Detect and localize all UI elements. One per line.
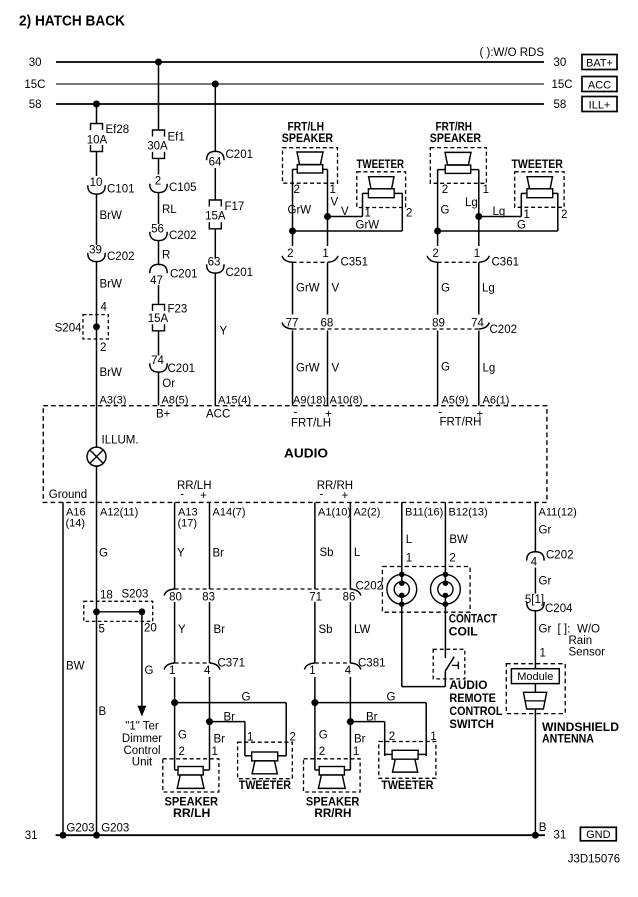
svg-text:G: G <box>178 730 187 742</box>
pin 1 of RR/LH speaker <box>212 746 218 758</box>
svg-text:A6(1): A6(1) <box>483 395 510 407</box>
svg-text:A9(18): A9(18) <box>293 395 326 407</box>
svg-text:BAT+: BAT+ <box>586 58 613 70</box>
svg-text:Rain: Rain <box>569 635 593 647</box>
connector C204 pin 5[1] <box>525 594 573 615</box>
pin A8(5) <box>162 395 189 407</box>
svg-text:2: 2 <box>406 208 412 220</box>
label TWEETER FRT/RH <box>512 159 564 171</box>
pin A2(2) <box>354 507 381 519</box>
svg-text:C381: C381 <box>358 658 386 670</box>
svg-text:C201: C201 <box>168 363 196 375</box>
wire RL C105 to C202 <box>159 193 178 225</box>
svg-text:G: G <box>99 548 108 560</box>
svg-text:Or: Or <box>162 378 175 390</box>
wire BW B12 to contact coil <box>445 502 468 583</box>
wire Ef28 to C101 <box>96 152 98 177</box>
wire G C361 to C202 <box>438 263 450 315</box>
svg-text:A1(10): A1(10) <box>318 507 351 519</box>
pin 2 of FRT/RH speaker <box>442 184 448 196</box>
svg-text:Ground: Ground <box>49 489 87 501</box>
svg-text:W/O: W/O <box>577 624 600 636</box>
splice S203 <box>84 589 157 636</box>
svg-text:B11(16): B11(16) <box>405 507 443 519</box>
svg-text:Module: Module <box>517 671 553 683</box>
svg-text:1: 1 <box>322 248 328 260</box>
svg-text:( ):W/O RDS: ( ):W/O RDS <box>480 47 545 59</box>
label TWEETER FRT/LH <box>357 159 405 171</box>
wire 15C to C201 <box>214 84 216 151</box>
svg-text:1: 1 <box>309 665 315 677</box>
wire contact coil right to switch <box>444 595 446 658</box>
svg-text:71: 71 <box>309 592 322 604</box>
contact coil box <box>382 567 470 613</box>
label: ( ):W/O RDS note <box>480 47 545 59</box>
svg-text:G: G <box>319 730 328 742</box>
wire Ef1 to C105 <box>158 158 160 174</box>
svg-text:ACC: ACC <box>206 409 230 421</box>
svg-text:4: 4 <box>101 302 108 314</box>
svg-text:FRT/LH: FRT/LH <box>291 418 331 430</box>
BAT+ box <box>582 55 617 70</box>
FRT/RH tweeter box <box>515 172 564 208</box>
svg-text:C105: C105 <box>169 182 197 194</box>
svg-text:47: 47 <box>150 275 163 287</box>
svg-text:RL: RL <box>162 204 177 216</box>
svg-text:CONTACT: CONTACT <box>449 614 497 626</box>
svg-text:2) HATCH BACK: 2) HATCH BACK <box>19 14 125 30</box>
FRT/RH tweeter stubs <box>521 192 558 194</box>
label Ground <box>49 489 87 501</box>
wire Br to RR/RH tweeter pin 2 <box>350 712 384 757</box>
junction G to RR/RH tweeter <box>311 699 318 706</box>
wire GrW C202 to A9 <box>293 331 320 406</box>
pin A11(12) <box>539 507 577 519</box>
wire Y C201 to A15 <box>215 273 227 406</box>
svg-text:G: G <box>441 205 450 217</box>
wire contact coil left to switch return <box>402 595 446 686</box>
wire Sb C202 to C381 <box>315 602 333 663</box>
svg-text:F17: F17 <box>225 201 245 213</box>
fuse Ef28 10A <box>87 124 129 152</box>
wire G speaker pin2 down <box>438 170 450 246</box>
pin A14(7) <box>213 507 246 519</box>
svg-text:A5(9): A5(9) <box>442 395 469 407</box>
svg-text:TWEETER: TWEETER <box>381 780 434 792</box>
svg-text:2: 2 <box>449 553 455 565</box>
fuse F23 15A <box>148 304 188 331</box>
svg-text:GrW: GrW <box>296 363 320 375</box>
svg-text:WINDSHIELD: WINDSHIELD <box>542 722 619 734</box>
svg-text:BrW: BrW <box>100 210 123 222</box>
label SPEAKER RR/RH <box>306 797 360 821</box>
wire V speaker pin1 down <box>328 169 339 246</box>
svg-text:1: 1 <box>169 665 175 677</box>
svg-text:1: 1 <box>483 184 489 196</box>
pin 2 of RR/RH tweeter <box>389 731 395 743</box>
svg-text:C202: C202 <box>107 251 135 263</box>
pin A6(1) <box>483 395 510 407</box>
svg-text:C361: C361 <box>492 257 520 269</box>
pin 1 of RR/RH tweeter <box>430 731 436 743</box>
svg-text:Y: Y <box>220 326 228 338</box>
wire F23 to C201 <box>158 331 160 356</box>
wire switch to return <box>444 671 446 686</box>
svg-text:2: 2 <box>561 209 567 221</box>
wire C201 to F23 <box>158 285 160 304</box>
contact coil left <box>387 572 417 607</box>
RR/RH speaker box <box>304 759 361 792</box>
pin A16(14) <box>66 507 86 530</box>
label J3D15076 <box>568 854 620 866</box>
svg-text:GrW: GrW <box>356 220 380 232</box>
pin 2 of RR/LH speaker <box>179 746 185 758</box>
svg-text:2: 2 <box>319 746 325 758</box>
pin 2 of FRT/RH tweeter <box>561 209 567 221</box>
antenna module <box>511 669 559 684</box>
svg-text:CONTROL: CONTROL <box>449 706 502 718</box>
svg-text:V: V <box>331 197 339 209</box>
svg-text:B: B <box>99 706 107 718</box>
connector C202 pin 39 <box>88 245 135 264</box>
svg-text:Br: Br <box>213 548 225 560</box>
pin A13(17) <box>178 507 198 530</box>
svg-text:30: 30 <box>29 57 42 69</box>
svg-text:AUDIO: AUDIO <box>284 447 328 461</box>
svg-text:GrW: GrW <box>296 283 320 295</box>
svg-text:Lg: Lg <box>482 283 495 295</box>
svg-text:(14): (14) <box>66 518 86 530</box>
wire GrW speaker pin2 down <box>288 169 312 246</box>
svg-text:89: 89 <box>432 318 445 330</box>
svg-text:V: V <box>332 283 340 295</box>
svg-text:A2(2): A2(2) <box>354 507 381 519</box>
svg-text:A15(4): A15(4) <box>218 395 251 407</box>
wire G to RR/LH tweeter pin 2 <box>175 692 287 757</box>
wire Y C202 to C371 <box>174 602 176 663</box>
junction antenna ground <box>532 832 539 839</box>
svg-text:GrW: GrW <box>288 205 312 217</box>
svg-text:C202: C202 <box>546 550 574 562</box>
wire Y A13 upper <box>175 502 185 589</box>
wire BrW C202 to S204 and A3 <box>97 262 123 406</box>
svg-text:1: 1 <box>524 209 530 221</box>
svg-text:1: 1 <box>474 248 480 260</box>
svg-text:FRT/RH: FRT/RH <box>436 122 473 134</box>
FRT/LH speaker box <box>283 148 338 184</box>
svg-text:BW: BW <box>66 661 85 673</box>
fuse F17 15A <box>205 200 244 229</box>
svg-text:31: 31 <box>25 830 38 842</box>
svg-text:31: 31 <box>554 830 567 842</box>
label AUDIO REMOTE CONTROL SWITCH <box>449 680 502 731</box>
svg-text:G203: G203 <box>101 823 129 835</box>
pin 1 of RR/LH tweeter <box>247 732 253 744</box>
svg-text:Ef1: Ef1 <box>168 132 185 144</box>
pin 2 of FRT/LH tweeter <box>406 208 412 220</box>
svg-text:Ef28: Ef28 <box>106 124 130 136</box>
svg-text:SWITCH: SWITCH <box>449 719 494 731</box>
svg-text:-: - <box>320 489 324 501</box>
svg-text:2: 2 <box>432 248 438 260</box>
connector C361 <box>427 248 519 269</box>
svg-text:G: G <box>387 692 396 704</box>
junction on bus 58 <box>93 101 100 108</box>
svg-text:Sb: Sb <box>319 624 333 636</box>
svg-text:A12(11): A12(11) <box>100 507 138 519</box>
label FRT/LH SPEAKER <box>282 122 334 146</box>
junction on bus 30 <box>155 59 162 66</box>
svg-text:SPEAKER: SPEAKER <box>430 133 482 145</box>
svg-text:1: 1 <box>406 553 412 565</box>
svg-text:20: 20 <box>144 623 157 635</box>
svg-text:B+: B+ <box>156 409 171 421</box>
svg-text:2: 2 <box>287 248 293 260</box>
pin A10(8) <box>330 395 363 407</box>
wire Br to RR/LH tweeter pin 1 <box>210 712 245 757</box>
svg-text:+: + <box>342 490 349 502</box>
AUDIO unit box <box>43 406 547 503</box>
svg-text:COIL: COIL <box>449 627 478 639</box>
junction on bus 15C <box>212 81 219 88</box>
wire V to tweeter pin 1 <box>328 193 363 218</box>
FRT/LH speaker stubs <box>293 168 328 170</box>
bus 30 (BAT+) <box>29 57 567 69</box>
svg-text:J3D15076: J3D15076 <box>568 854 620 866</box>
svg-text:SPEAKER: SPEAKER <box>282 133 334 145</box>
svg-text:S203: S203 <box>122 589 149 601</box>
junction G203 right <box>93 823 129 839</box>
wire L B11 to contact coil <box>402 502 413 583</box>
wire GrW C351 to C202 <box>293 263 320 315</box>
connector C101 pin 10 <box>88 177 135 196</box>
svg-text:4: 4 <box>531 557 538 569</box>
svg-text:B: B <box>539 822 547 834</box>
wire Gr C202 to C204 <box>535 568 551 594</box>
label ACC <box>206 409 230 421</box>
svg-text:[ ]:: [ ]: <box>558 624 571 636</box>
svg-text:4: 4 <box>345 665 352 677</box>
splice S204 <box>55 302 109 355</box>
svg-text:1: 1 <box>540 648 546 660</box>
svg-text:G203: G203 <box>66 823 94 835</box>
svg-text:C201: C201 <box>226 267 254 279</box>
svg-text:+: + <box>200 490 207 502</box>
junction V to tweeter <box>324 213 331 220</box>
label FRT/LH polarity <box>291 407 332 430</box>
svg-text:ANTENNA: ANTENNA <box>542 734 594 746</box>
svg-text:Y: Y <box>177 548 185 560</box>
svg-text:86: 86 <box>343 592 356 604</box>
wire BrW C101 to C202 <box>97 194 123 245</box>
label TWEETER RR/RH <box>381 780 434 792</box>
wire GrW to tweeter pin 2 <box>293 193 403 232</box>
svg-text:Dimmer: Dimmer <box>122 733 162 745</box>
wire G C202 to A5 <box>438 331 450 406</box>
svg-text:15A: 15A <box>205 211 226 223</box>
svg-text:1: 1 <box>330 184 336 196</box>
svg-text:L: L <box>406 534 413 546</box>
svg-text:G: G <box>242 692 251 704</box>
svg-text:B12(13): B12(13) <box>449 507 488 519</box>
svg-text:TWEETER: TWEETER <box>357 159 405 171</box>
FRT/LH speaker symbol <box>297 152 323 173</box>
title: 2) HATCH BACK <box>19 14 125 30</box>
svg-text:SPEAKER: SPEAKER <box>165 797 219 809</box>
svg-text:63: 63 <box>208 257 221 269</box>
svg-text:C202: C202 <box>169 230 197 242</box>
ground bus 31 <box>25 830 567 843</box>
svg-text:58: 58 <box>554 99 567 111</box>
svg-text:58: 58 <box>29 99 42 111</box>
wire B antenna to G203 bus <box>535 709 546 835</box>
svg-text:10: 10 <box>90 177 103 189</box>
wire Br C381 to RR/RH speaker <box>350 677 365 770</box>
wire V C351 to C202 <box>328 263 340 315</box>
wire G S203 to dimmer unit arrow <box>138 612 154 717</box>
svg-text:56: 56 <box>151 224 164 236</box>
wire Lg C202 to A6 <box>479 331 495 406</box>
svg-text:1: 1 <box>212 746 218 758</box>
svg-text:G: G <box>441 362 450 374</box>
svg-text:74: 74 <box>151 355 164 367</box>
svg-text:A3(3): A3(3) <box>100 395 127 407</box>
svg-text:ILL+: ILL+ <box>589 100 611 112</box>
svg-text:A10(8): A10(8) <box>330 395 363 407</box>
svg-text:C204: C204 <box>545 603 573 615</box>
label AUDIO <box>284 447 328 461</box>
svg-text:C201: C201 <box>226 149 254 161</box>
junction G to RR/LH tweeter <box>171 699 178 706</box>
connector C201 pin 74 <box>150 355 195 375</box>
svg-text:1: 1 <box>365 208 371 220</box>
connector C371 <box>164 658 245 678</box>
pin B12(13) <box>449 507 488 519</box>
svg-text:BrW: BrW <box>100 279 123 291</box>
wire G to RR/RH tweeter pin 1 <box>315 692 426 757</box>
connector C105 pin 2 <box>150 176 197 195</box>
pin A15(4) <box>218 395 251 407</box>
svg-text:TWEETER: TWEETER <box>512 159 564 171</box>
pin A3(3) <box>100 395 127 407</box>
RR/LH speaker symbol <box>175 767 210 789</box>
wire Gr C204 to module <box>535 611 551 669</box>
pin 1 of FRT/LH speaker <box>330 184 336 196</box>
svg-text:18: 18 <box>100 590 113 602</box>
svg-text:80: 80 <box>169 592 182 604</box>
svg-text:2: 2 <box>179 746 185 758</box>
ILL+ box <box>582 97 617 112</box>
RR/LH tweeter box <box>238 742 293 779</box>
svg-text:A14(7): A14(7) <box>213 507 246 519</box>
wire G/B A12 to G203 via S203 <box>97 502 109 835</box>
svg-text:REMOTE: REMOTE <box>449 693 496 705</box>
lamp ILLUM <box>87 406 139 503</box>
wire G C381 to RR/RH speaker <box>315 677 328 770</box>
svg-text:Gr: Gr <box>539 624 552 636</box>
label TWEETER RR/LH <box>239 780 292 792</box>
wire BW A16 to G203 <box>63 502 85 835</box>
pin 2 of RR/RH speaker <box>319 746 325 758</box>
pin 2 of RR/LH tweeter <box>290 732 296 744</box>
junction G203 left <box>60 823 95 839</box>
label rain sensor note <box>558 624 606 659</box>
svg-text:4: 4 <box>204 665 211 677</box>
RR/LH speaker box <box>163 759 219 792</box>
svg-text:Br: Br <box>214 624 226 636</box>
svg-text:A8(5): A8(5) <box>162 395 189 407</box>
connector C351 <box>282 248 368 269</box>
label B+ <box>156 409 171 421</box>
svg-text:C101: C101 <box>107 184 135 196</box>
FRT/LH tweeter stubs <box>363 192 403 194</box>
FRT/RH tweeter symbol <box>527 177 553 198</box>
junction Br to RR/RH tweeter <box>347 718 354 725</box>
svg-text:RR/LH: RR/LH <box>173 808 210 820</box>
connector C202 pin 56 <box>150 224 197 243</box>
svg-text:G: G <box>517 220 526 232</box>
svg-text:TWEETER: TWEETER <box>239 780 292 792</box>
label CONTACT COIL <box>449 614 497 639</box>
ACC box <box>582 77 617 92</box>
pin A12(11) <box>100 507 138 519</box>
svg-text:83: 83 <box>202 592 215 604</box>
svg-text:Lg: Lg <box>483 363 496 375</box>
svg-text:Sb: Sb <box>320 547 334 559</box>
svg-text:(17): (17) <box>178 518 198 530</box>
svg-text:2: 2 <box>100 342 106 354</box>
svg-text:FRT/RH: FRT/RH <box>440 417 482 429</box>
svg-text:BW: BW <box>449 534 468 546</box>
wire V C202 to A10 <box>328 331 340 406</box>
svg-text:15C: 15C <box>552 79 573 91</box>
pin 1 of RR/RH speaker <box>353 746 359 758</box>
svg-text:ACC: ACC <box>588 80 611 92</box>
RR/RH speaker symbol <box>315 767 351 789</box>
svg-text:5: 5 <box>99 624 105 636</box>
svg-text:R: R <box>162 250 170 262</box>
svg-text:V: V <box>332 363 340 375</box>
wire C201 to F17 <box>214 168 216 200</box>
label WINDSHIELD ANTENNA <box>542 722 619 746</box>
svg-text:C371: C371 <box>218 658 246 670</box>
bus 15C (ACC) <box>24 79 572 91</box>
svg-text:2: 2 <box>155 176 161 188</box>
svg-text:Gr: Gr <box>539 576 552 588</box>
connector C202 pin 4 <box>527 550 574 569</box>
svg-text:ILLUM.: ILLUM. <box>102 435 139 447</box>
svg-text:G: G <box>145 665 154 677</box>
svg-text:GND: GND <box>586 829 611 841</box>
windshield antenna box <box>506 664 565 714</box>
pin 2 of FRT/LH speaker <box>294 184 300 196</box>
pin 1 of FRT/RH tweeter <box>524 209 530 221</box>
wire Br A14 upper <box>210 502 225 589</box>
wire Br C202 to C371 <box>209 602 211 663</box>
svg-text:G: G <box>441 283 450 295</box>
svg-text:5[1]: 5[1] <box>525 594 544 606</box>
svg-text:C201: C201 <box>170 269 198 281</box>
wire Lg to tweeter pin 1 <box>479 193 522 218</box>
svg-text:Y: Y <box>178 624 186 636</box>
junction GrW to tweeter <box>289 228 296 235</box>
pin A9(18) <box>293 395 326 407</box>
wire 58 to fuse Ef28 <box>96 104 98 124</box>
svg-text:-: - <box>180 489 184 501</box>
svg-text:39: 39 <box>89 245 102 257</box>
audio remote control switch box <box>433 649 465 679</box>
FRT/LH tweeter box <box>357 172 406 208</box>
